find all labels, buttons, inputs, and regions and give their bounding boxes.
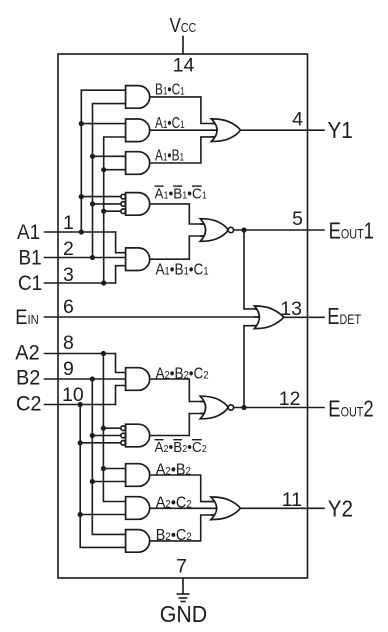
svg-text:EIN: EIN xyxy=(15,306,38,329)
svg-text:EDET: EDET xyxy=(327,304,361,329)
svg-text:9: 9 xyxy=(63,358,74,380)
svg-text:A2•B2: A2•B2 xyxy=(156,461,191,479)
svg-text:B1: B1 xyxy=(19,247,42,270)
svg-text:A1: A1 xyxy=(17,221,40,244)
svg-text:B2: B2 xyxy=(16,366,40,390)
svg-text:5: 5 xyxy=(292,208,303,230)
svg-text:A1•B1•C1: A1•B1•C1 xyxy=(155,186,207,203)
svg-text:14: 14 xyxy=(173,55,195,77)
svg-text:C2: C2 xyxy=(16,392,41,416)
svg-text:12: 12 xyxy=(279,388,301,410)
svg-text:13: 13 xyxy=(280,298,302,320)
svg-text:A2•B2•C2: A2•B2•C2 xyxy=(156,365,209,382)
svg-text:GND: GND xyxy=(160,601,207,627)
svg-text:VCC: VCC xyxy=(170,14,197,37)
svg-text:6: 6 xyxy=(63,296,74,318)
svg-text:B1•C1: B1•C1 xyxy=(155,80,185,98)
svg-text:2: 2 xyxy=(63,238,74,260)
svg-text:1: 1 xyxy=(63,212,74,234)
svg-text:Y1: Y1 xyxy=(328,117,353,143)
svg-text:EOUT2: EOUT2 xyxy=(328,396,373,421)
svg-text:Y2: Y2 xyxy=(328,495,353,521)
svg-text:4: 4 xyxy=(292,109,303,131)
svg-text:B2•C2: B2•C2 xyxy=(156,526,192,544)
svg-text:10: 10 xyxy=(62,384,84,406)
svg-text:C1: C1 xyxy=(18,272,42,295)
svg-text:A1•B1: A1•B1 xyxy=(155,146,184,164)
svg-text:A1•C1: A1•C1 xyxy=(155,113,185,131)
svg-text:A1•B1•C1: A1•B1•C1 xyxy=(156,262,209,279)
svg-text:A2•B2•C2: A2•B2•C2 xyxy=(155,440,207,457)
svg-text:A2•C2: A2•C2 xyxy=(156,494,192,512)
svg-text:11: 11 xyxy=(282,489,302,511)
svg-text:7: 7 xyxy=(176,556,187,578)
svg-text:8: 8 xyxy=(63,332,74,354)
svg-text:A2: A2 xyxy=(15,341,39,365)
svg-text:EOUT1: EOUT1 xyxy=(329,219,374,244)
svg-text:3: 3 xyxy=(63,264,74,286)
